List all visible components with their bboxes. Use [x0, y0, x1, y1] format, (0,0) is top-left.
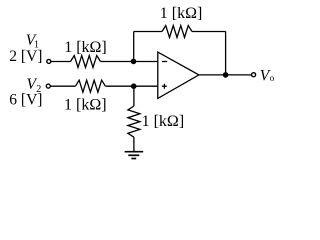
wire V1 terminal to resistor R1 — [51, 61, 70, 63]
node junction inverting input — [131, 59, 137, 65]
svg-text:2 [V]: 2 [V] — [9, 48, 42, 65]
svg-text:6 [V]: 6 [V] — [9, 91, 42, 108]
wire R2 to op-amp non-inverting input — [105, 85, 157, 87]
svg-text:1 [kΩ]: 1 [kΩ] — [64, 97, 107, 114]
wire feedback top right horizontal — [192, 31, 226, 33]
wire feedback left vertical — [133, 32, 135, 62]
resistor R1 1 kΩ (V1 to inverting input) — [71, 56, 101, 68]
terminal V1 — [47, 59, 51, 63]
svg-text:1 [kΩ]: 1 [kΩ] — [142, 113, 185, 130]
node label V2 — [27, 76, 42, 95]
node junction output — [223, 72, 229, 78]
wire op-amp output to terminal — [199, 74, 251, 76]
wire feedback right vertical to output node — [225, 32, 227, 75]
wire V2 terminal to resistor R2 — [51, 85, 76, 87]
resistor R2 1 kΩ (V2 to non-inverting input) — [75, 80, 105, 92]
svg-text:1 [kΩ]: 1 [kΩ] — [64, 39, 107, 56]
terminal V2 — [46, 84, 50, 88]
node label Vo — [260, 68, 275, 85]
ground — [125, 152, 144, 159]
resistor R3 1 kΩ (non-inverting input to ground) — [128, 106, 140, 137]
node junction non-inverting input — [131, 83, 137, 89]
wire resistor R3 to ground — [133, 137, 135, 151]
op-amp inverting pin mark - — [162, 61, 167, 63]
op-amp non-inverting pin mark + — [162, 84, 167, 89]
terminal Vo — [252, 73, 256, 77]
wire junction down to grounding resistor — [133, 86, 135, 106]
svg-text:1 [kΩ]: 1 [kΩ] — [160, 5, 203, 22]
resistor Rf 1 kΩ (feedback) — [162, 26, 192, 38]
op-amp U1 triangle — [158, 52, 199, 98]
node label V1 — [26, 32, 39, 51]
svg-text:o: o — [270, 73, 275, 83]
wire feedback top left horizontal — [134, 31, 162, 33]
wire R1 to op-amp inverting input — [101, 61, 158, 63]
